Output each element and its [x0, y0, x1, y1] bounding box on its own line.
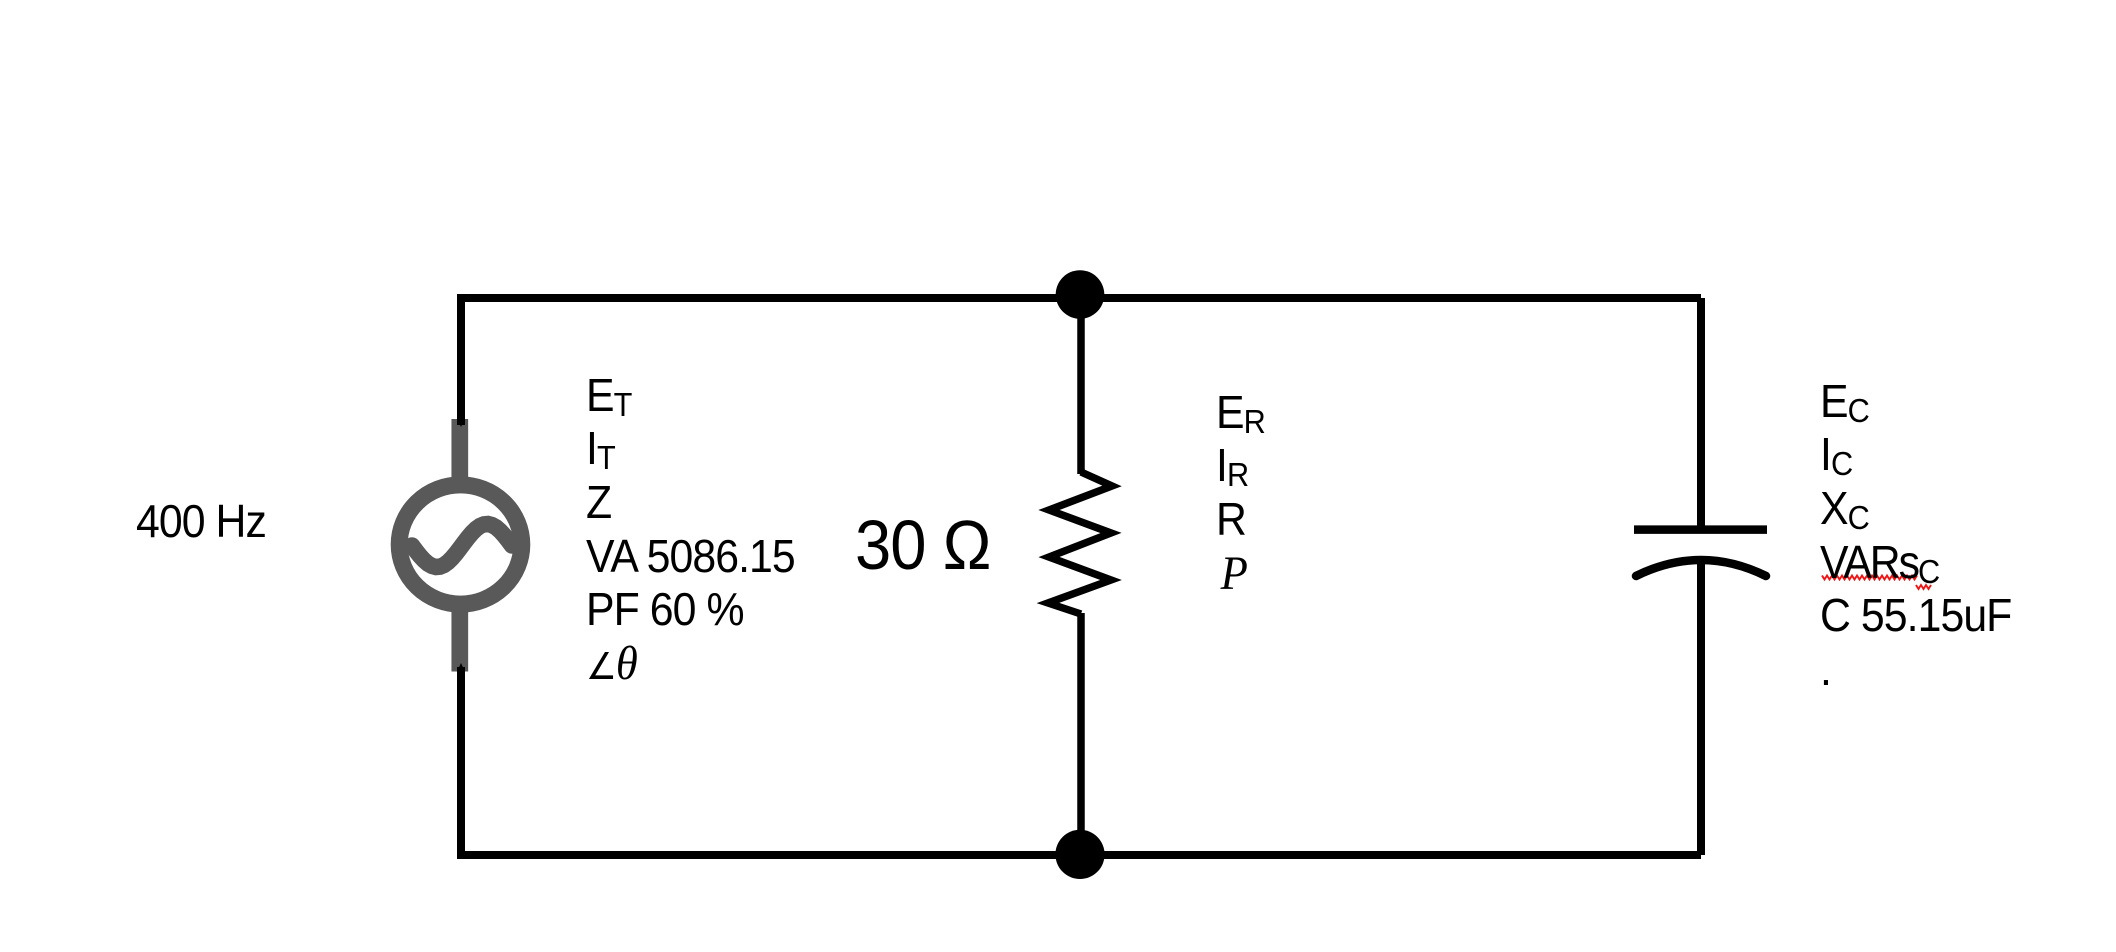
red spellcheck squiggle under VARs — [1822, 576, 1917, 580]
AC source V1: top gray stub — [451, 419, 468, 485]
red spellcheck squiggle under subscript C — [1916, 585, 1931, 589]
wire: black tip into top stub — [457, 418, 465, 427]
capacitor C: curved bottom plate — [1636, 560, 1766, 576]
junction node dot (top) — [1056, 270, 1105, 319]
label 400 Hz — [136, 495, 266, 549]
AC source V1: gray circle body — [399, 485, 522, 604]
capacitor label block EC IC XC VARsC C-value — [1820, 375, 2011, 697]
resistor R zigzag — [1048, 472, 1112, 614]
top wire — [461, 298, 1701, 425]
junction node dot (bottom) — [1055, 830, 1104, 879]
AC source V1: bottom gray stub — [451, 608, 468, 672]
AC source V1: sine wave — [412, 524, 512, 567]
capacitor C: top plate — [1634, 525, 1767, 534]
wire: middle branch upper segment — [1077, 298, 1085, 474]
wire: right branch lower segment — [1697, 559, 1705, 855]
wire: middle branch lower segment — [1077, 613, 1085, 855]
resistor value label 30 ohm — [855, 506, 990, 584]
bottom wire — [461, 667, 1701, 855]
wire: right branch upper segment — [1697, 298, 1705, 531]
wire: black tip out of bottom stub — [457, 663, 465, 672]
source label block ET IT Z VA PF angle-theta — [586, 369, 795, 694]
resistor label block ER IR R P — [1216, 386, 1265, 601]
